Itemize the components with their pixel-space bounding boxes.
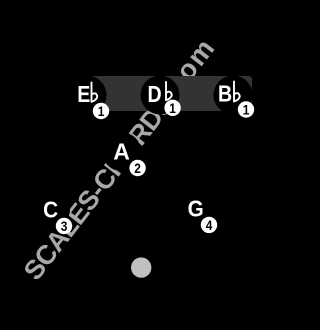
badge 1 of Bb (238, 101, 254, 117)
label G (188, 195, 204, 221)
fret bar (88, 76, 252, 111)
flat of Eb (92, 83, 98, 102)
svg-text:E: E (77, 82, 90, 108)
badge 2 of A (129, 160, 145, 176)
svg-text:B: B (218, 81, 232, 107)
label Db (148, 81, 162, 107)
badge 4 of G (201, 217, 217, 233)
note circle C (31, 190, 70, 229)
label C (43, 197, 58, 223)
note circle Db (141, 76, 180, 115)
svg-text:D: D (148, 81, 162, 107)
note circle G (176, 189, 215, 228)
svg-text:G: G (188, 195, 204, 221)
svg-text:1: 1 (98, 103, 105, 119)
badge 1 of Eb (93, 103, 109, 119)
svg-text:C: C (43, 197, 58, 223)
svg-text:1: 1 (243, 102, 250, 118)
label Bb (218, 81, 232, 107)
note circle A (102, 132, 141, 171)
label A (113, 138, 130, 164)
note circle Eb (68, 76, 107, 115)
svg-text:4: 4 (206, 217, 213, 233)
flat of Bb (234, 82, 240, 102)
root dot (131, 257, 151, 277)
svg-text:2: 2 (134, 160, 141, 176)
note circle Bb (214, 76, 253, 115)
flat of Db (166, 82, 172, 100)
svg-text:1: 1 (169, 100, 176, 116)
svg-text:A: A (113, 138, 130, 164)
svg-text:3: 3 (61, 218, 68, 234)
label Eb (77, 82, 90, 108)
badge 1 of Db (164, 100, 180, 116)
badge 3 of C (56, 218, 72, 234)
